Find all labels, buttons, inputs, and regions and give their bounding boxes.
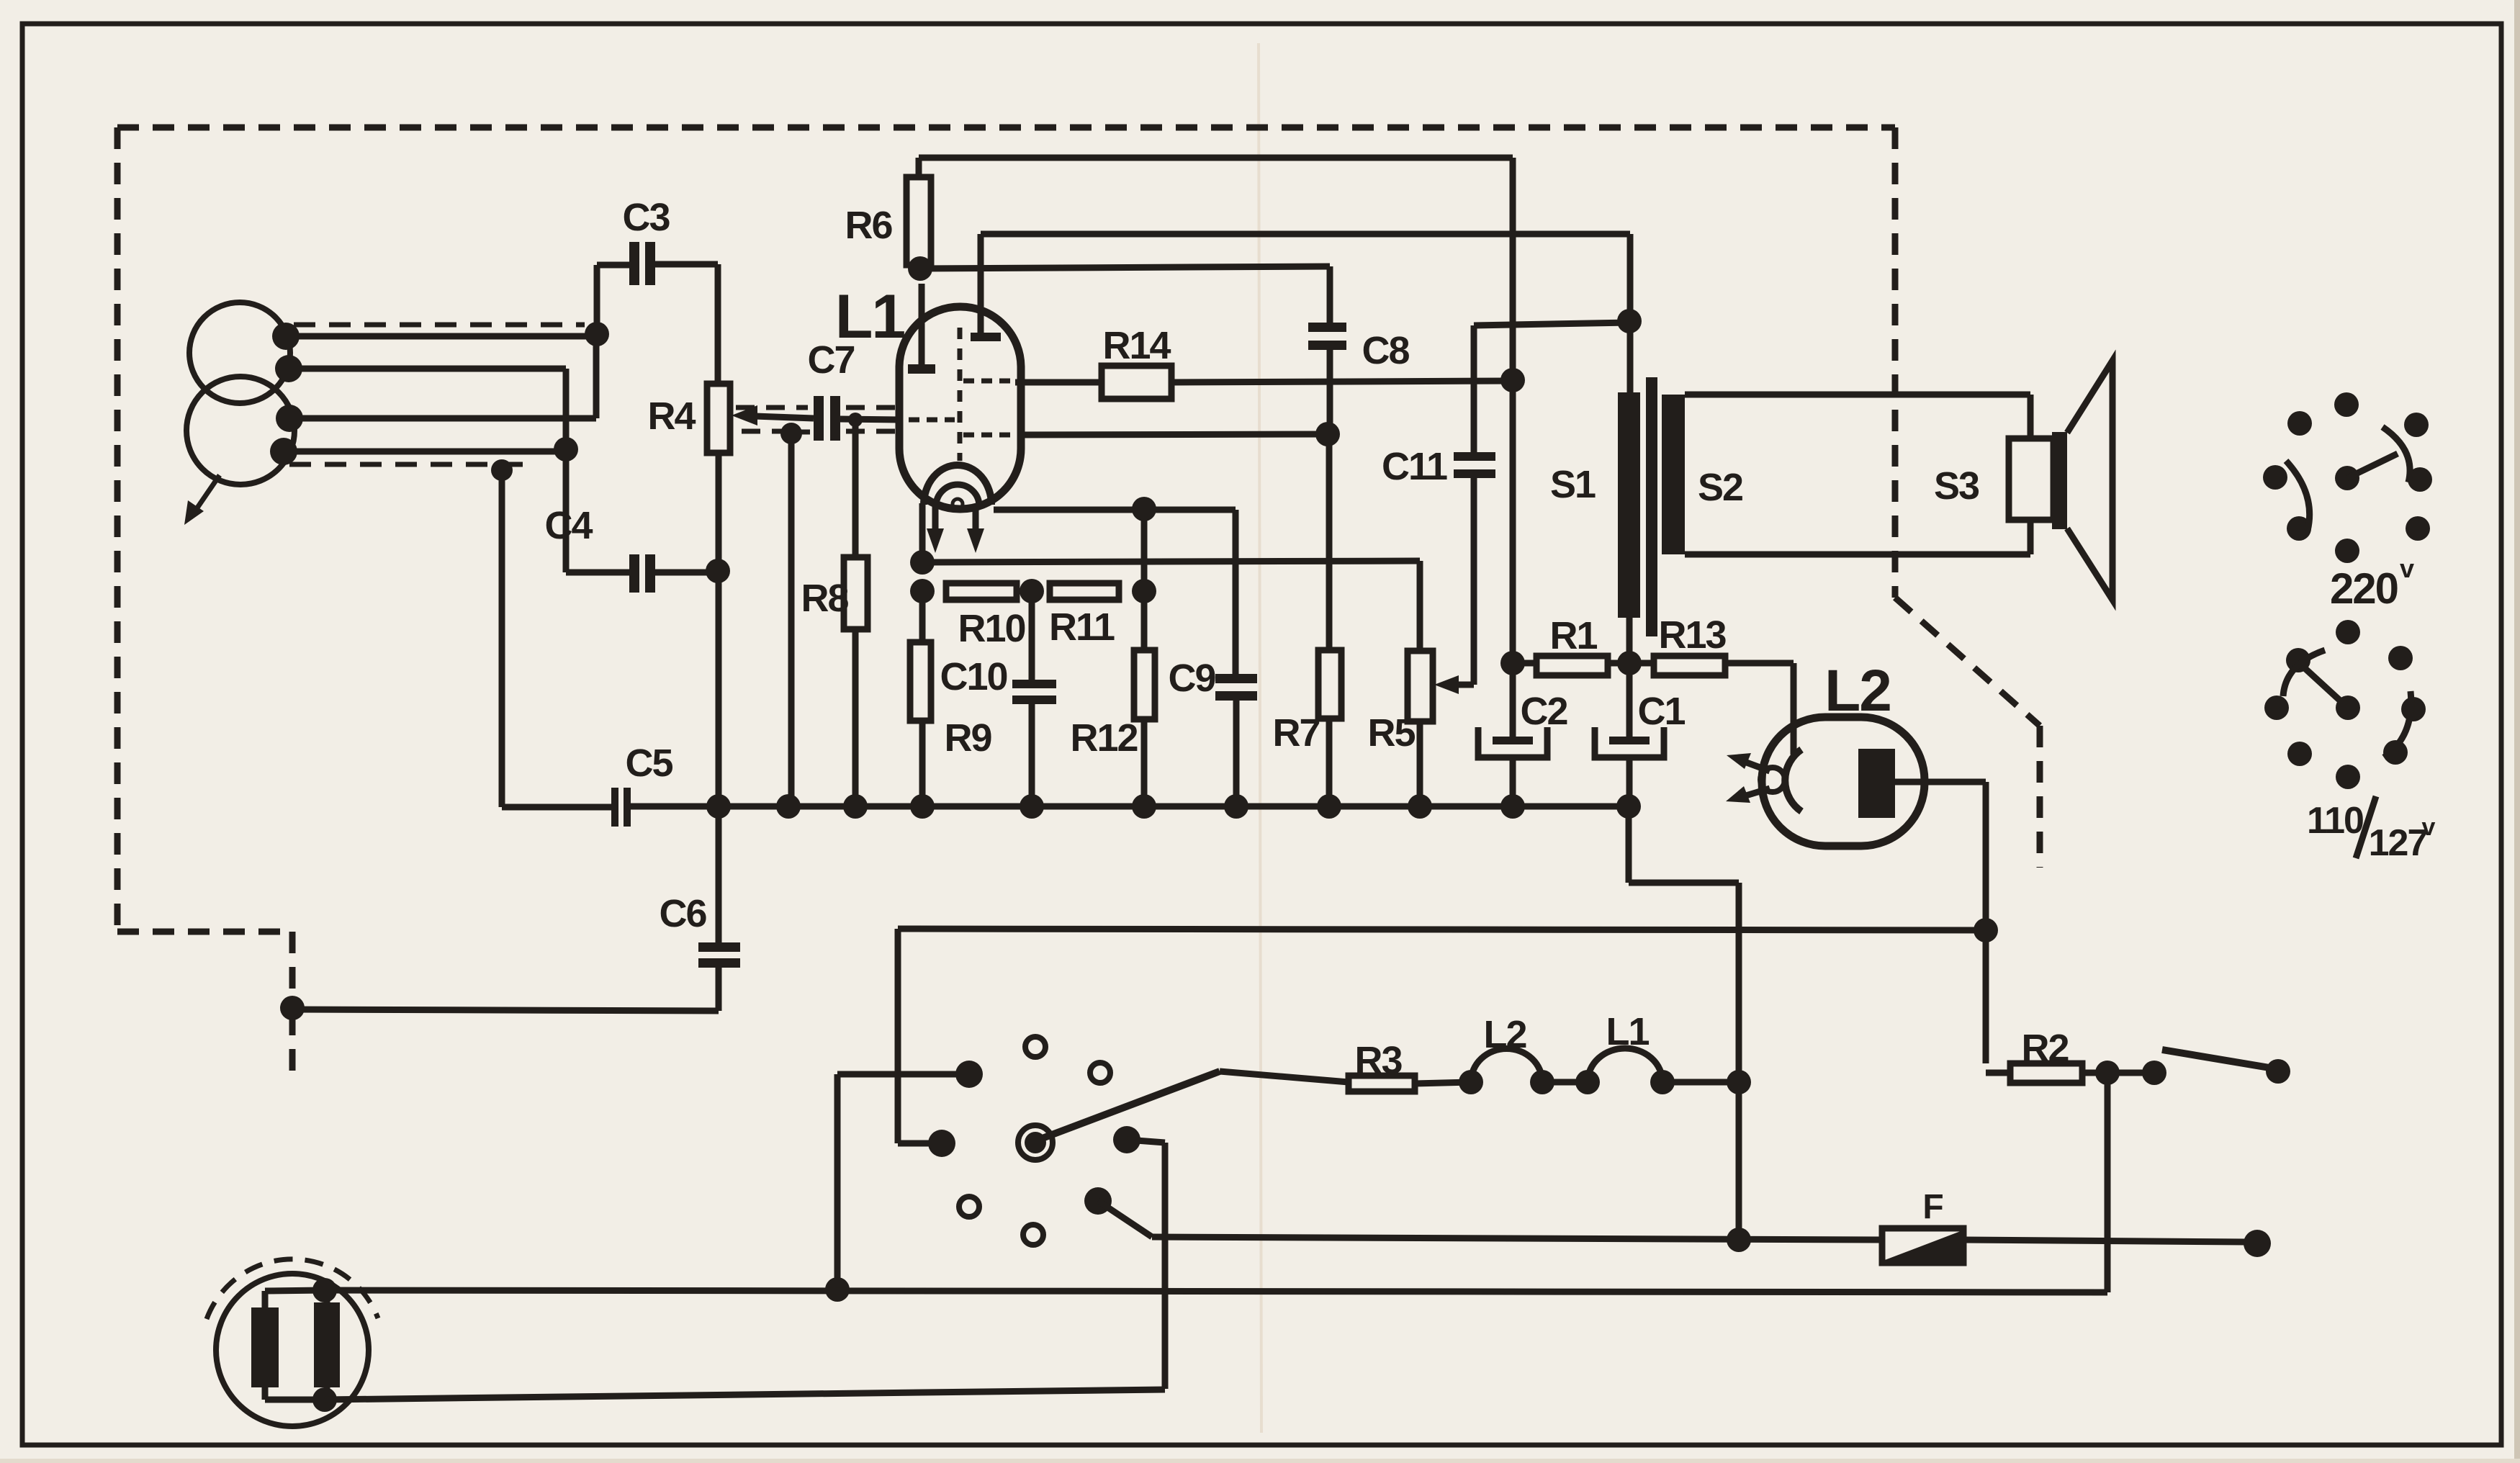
svg-text:R14: R14 <box>1102 324 1171 367</box>
svg-text:C1: C1 <box>1637 690 1685 733</box>
svg-text:C10: C10 <box>940 655 1007 698</box>
svg-text:S1: S1 <box>1550 463 1596 506</box>
svg-text:R9: R9 <box>944 716 991 760</box>
svg-text:220: 220 <box>2330 564 2398 613</box>
svg-text:C4: C4 <box>544 504 593 547</box>
svg-text:R3: R3 <box>1354 1039 1402 1082</box>
svg-text:L1: L1 <box>835 282 905 351</box>
svg-text:L1: L1 <box>1606 1010 1649 1053</box>
svg-text:C5: C5 <box>625 742 672 785</box>
svg-text:F: F <box>1922 1188 1943 1226</box>
svg-text:R7: R7 <box>1272 711 1319 755</box>
svg-text:S2: S2 <box>1698 466 1742 509</box>
svg-text:C2: C2 <box>1520 690 1567 733</box>
svg-text:R6: R6 <box>845 204 892 247</box>
svg-text:S3: S3 <box>1934 464 1979 508</box>
svg-text:L2: L2 <box>1824 658 1891 724</box>
svg-text:C3: C3 <box>622 196 670 239</box>
svg-text:R1: R1 <box>1549 614 1597 657</box>
svg-text:v: v <box>2400 554 2414 583</box>
svg-text:v: v <box>2422 814 2436 841</box>
svg-text:R2: R2 <box>2021 1027 2068 1070</box>
svg-text:C9: C9 <box>1168 657 1215 700</box>
svg-text:C11: C11 <box>1382 445 1447 488</box>
svg-text:127: 127 <box>2369 822 2427 864</box>
svg-text:C6: C6 <box>659 892 706 935</box>
svg-text:R13: R13 <box>1658 613 1726 657</box>
svg-text:110: 110 <box>2307 800 2363 842</box>
svg-text:R8: R8 <box>801 577 848 620</box>
svg-text:L2: L2 <box>1483 1013 1526 1056</box>
svg-text:R11: R11 <box>1049 606 1115 649</box>
svg-text:R5: R5 <box>1367 711 1415 755</box>
svg-text:R12: R12 <box>1070 716 1137 760</box>
svg-text:C8: C8 <box>1362 329 1409 372</box>
svg-text:R10: R10 <box>958 607 1025 650</box>
svg-text:R4: R4 <box>647 395 696 438</box>
